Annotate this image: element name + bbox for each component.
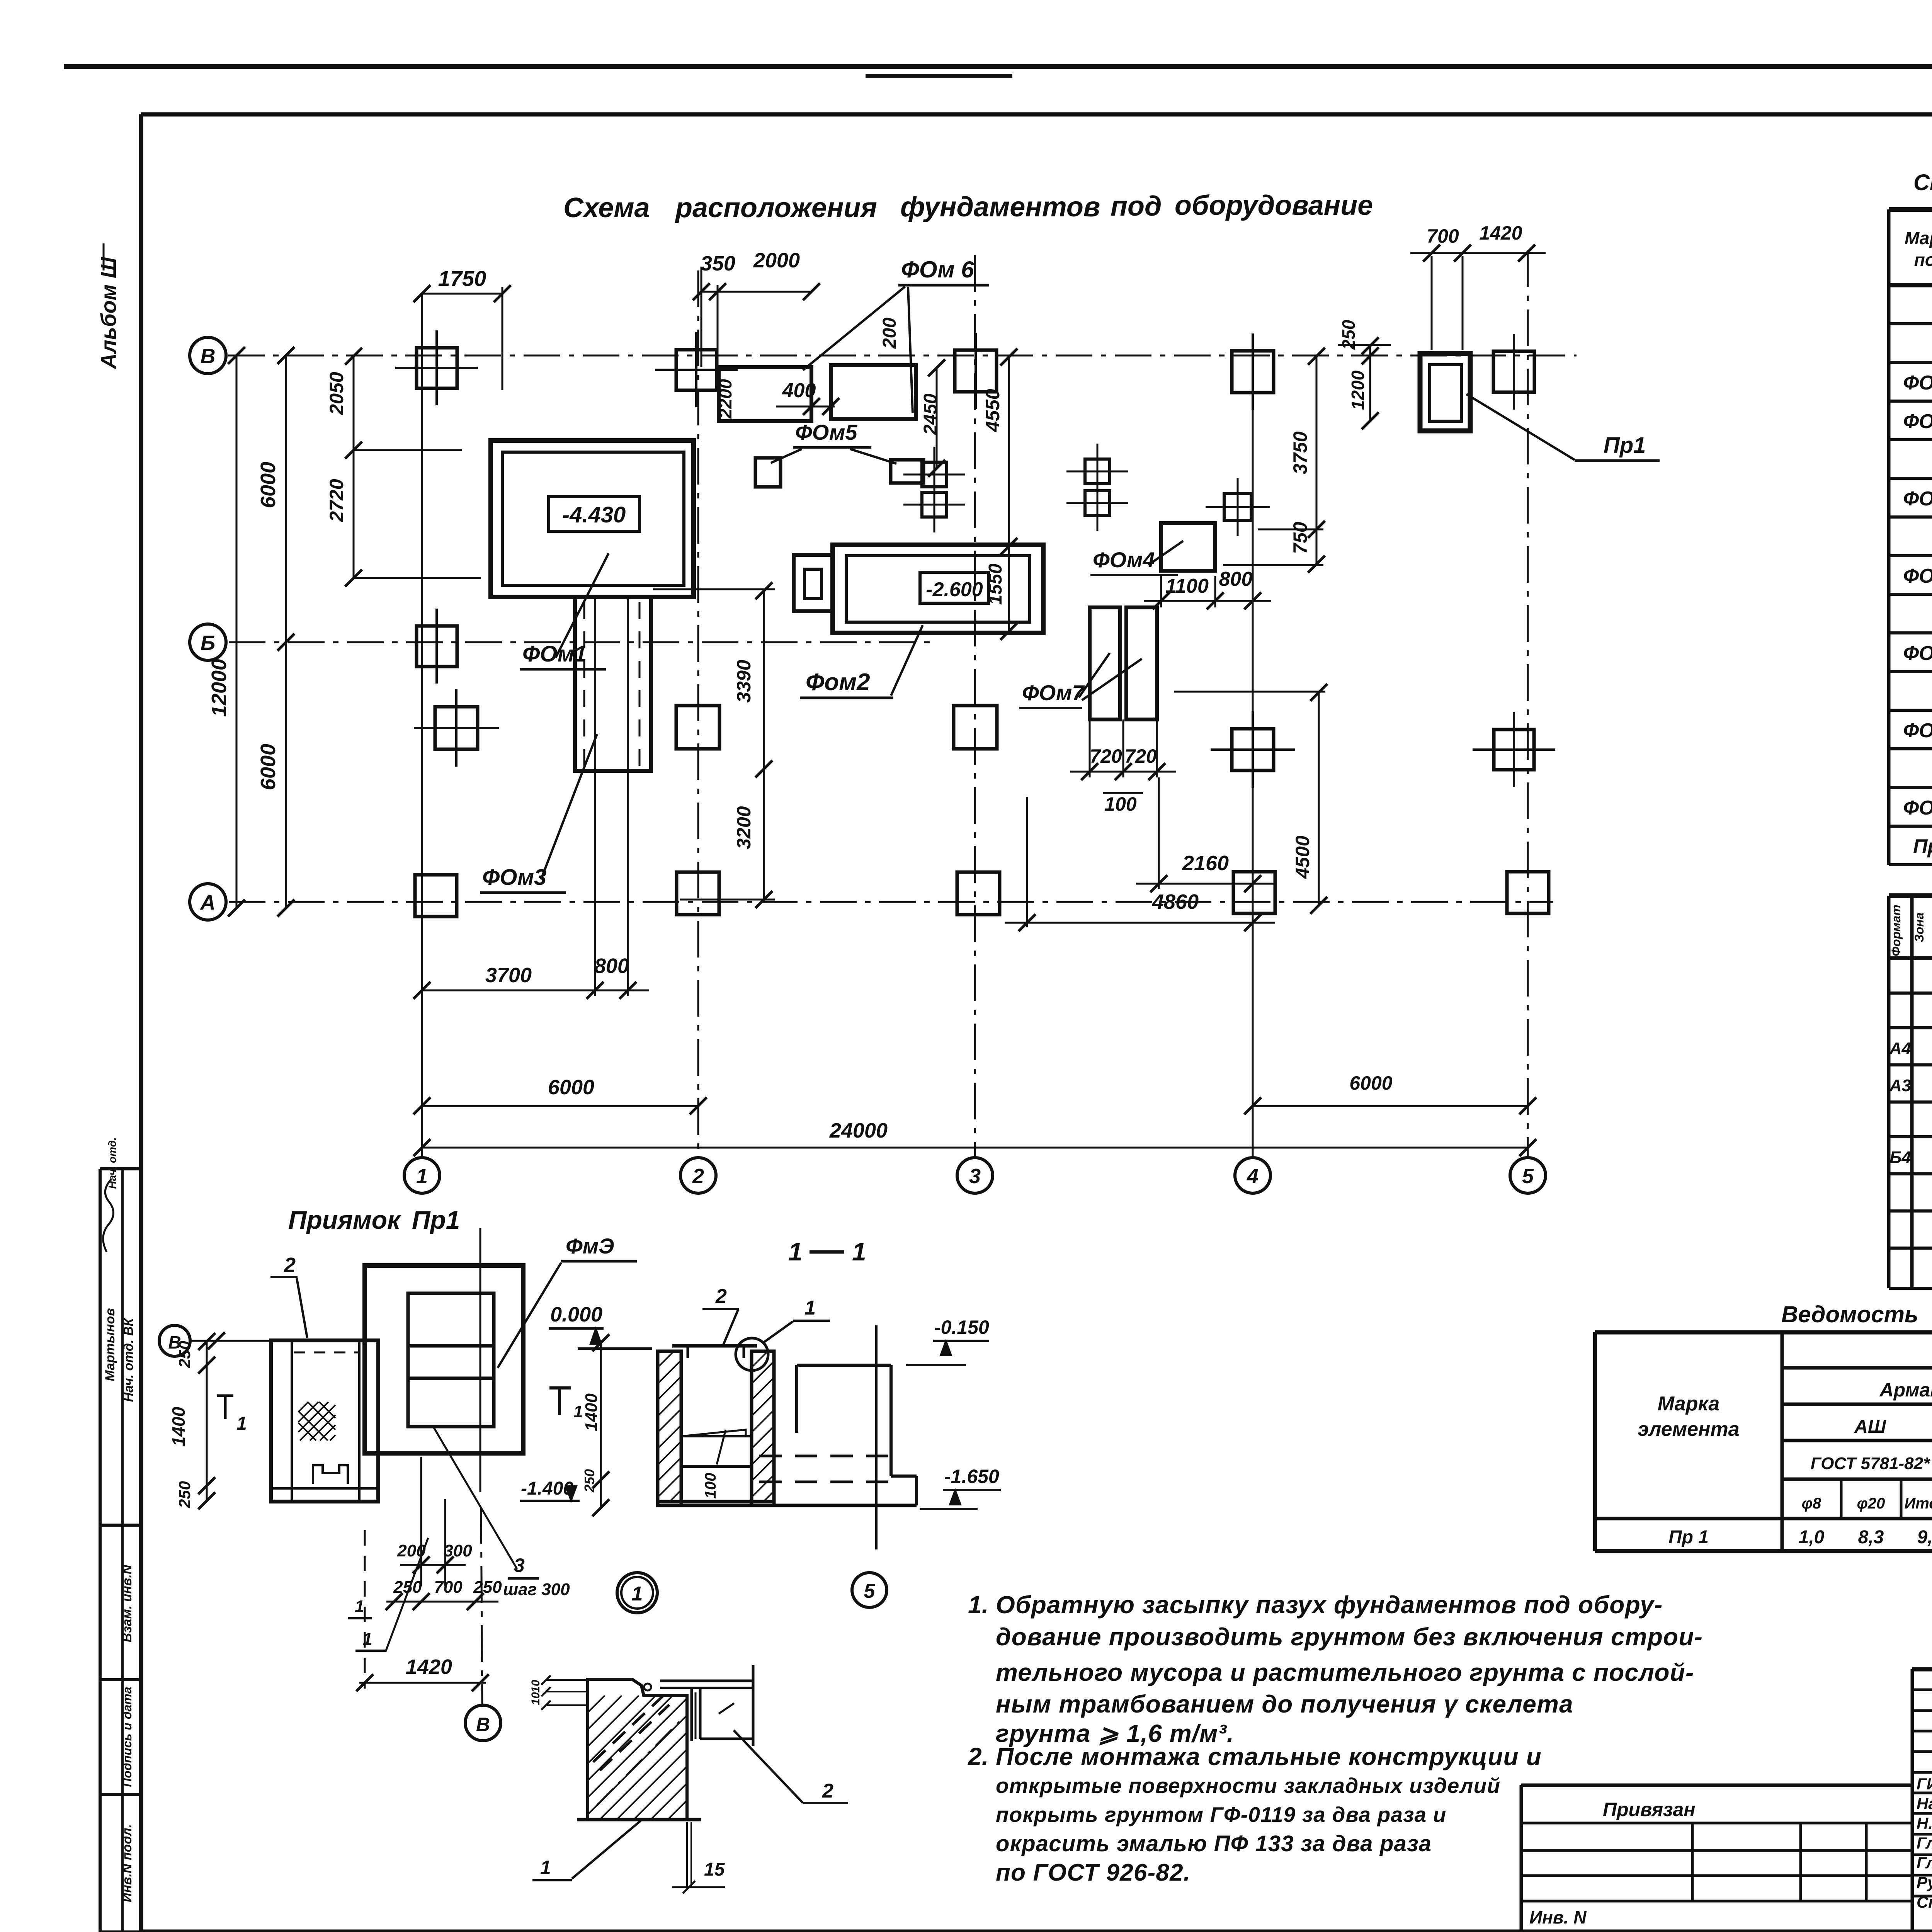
- svg-text:Взам. инв.N: Взам. инв.N: [120, 1564, 134, 1642]
- svg-text:1750: 1750: [438, 266, 486, 291]
- svg-text:3: 3: [969, 1165, 981, 1188]
- svg-text:1: 1: [788, 1237, 803, 1266]
- svg-text:250: 250: [582, 1469, 597, 1493]
- svg-text:3200: 3200: [733, 806, 755, 849]
- svg-text:ФОм4: ФОм4: [1093, 548, 1155, 572]
- svg-text:2: 2: [715, 1285, 727, 1308]
- svg-text:поз.: поз.: [1914, 250, 1932, 270]
- svg-text:2050: 2050: [326, 372, 347, 415]
- svg-text:ФОм5: ФОм5: [795, 420, 857, 444]
- svg-text:1: 1: [573, 1402, 583, 1421]
- svg-text:2000: 2000: [753, 249, 800, 272]
- svg-text:250: 250: [175, 1341, 194, 1368]
- svg-text:Гл. спец: Гл. спец: [1917, 1854, 1932, 1872]
- svg-text:расположения: расположения: [675, 192, 877, 223]
- svg-text:1: 1: [540, 1857, 551, 1878]
- svg-text:4860: 4860: [1152, 890, 1199, 913]
- svg-text:под: под: [1111, 191, 1162, 222]
- svg-text:ФОм3: ФОм3: [482, 865, 546, 890]
- svg-text:ГИП: ГИП: [1917, 1775, 1932, 1793]
- svg-text:Гл.конст: Гл.конст: [1917, 1834, 1932, 1852]
- svg-text:дование производить грунтом: дование производить грунтом без включени…: [996, 1623, 1703, 1651]
- svg-text:1550: 1550: [985, 563, 1006, 605]
- svg-text:АШ: АШ: [1854, 1417, 1886, 1437]
- svg-text:по ГОСТ 926-82.: по ГОСТ 926-82.: [996, 1859, 1190, 1886]
- svg-text:1: 1: [632, 1583, 643, 1605]
- svg-text:10: 10: [529, 1680, 542, 1693]
- svg-text:4: 4: [1247, 1165, 1259, 1188]
- svg-text:оборудование: оборудование: [1175, 190, 1373, 221]
- svg-text:Пр1: Пр1: [1913, 835, 1932, 858]
- svg-text:720: 720: [1124, 745, 1157, 767]
- svg-text:Н.контр.: Н.контр.: [1917, 1814, 1932, 1832]
- svg-text:ФОм1: ФОм1: [1903, 372, 1932, 394]
- svg-text:φ20: φ20: [1857, 1495, 1885, 1512]
- svg-text:Обратную засыпку пазух фунд: Обратную засыпку пазух фундаментов под о…: [996, 1591, 1663, 1619]
- svg-text:6000: 6000: [1349, 1072, 1392, 1094]
- svg-text:Подпись и дата: Подпись и дата: [120, 1687, 134, 1787]
- svg-text:1,0: 1,0: [1799, 1527, 1825, 1548]
- svg-text:800: 800: [1219, 568, 1253, 590]
- svg-text:Привязан: Привязан: [1603, 1799, 1696, 1820]
- svg-text:ФОм1: ФОм1: [522, 641, 587, 667]
- svg-text:1: 1: [362, 1629, 372, 1649]
- svg-text:100: 100: [1104, 793, 1137, 815]
- svg-text:10: 10: [529, 1692, 542, 1705]
- svg-text:-1.650: -1.650: [944, 1466, 999, 1487]
- svg-text:300: 300: [444, 1541, 472, 1560]
- svg-text:В: В: [201, 345, 216, 368]
- svg-text:2720: 2720: [326, 479, 347, 522]
- svg-text:ФОм6: ФОм6: [1903, 719, 1932, 742]
- svg-text:2160: 2160: [1182, 852, 1229, 875]
- svg-text:1: 1: [852, 1237, 866, 1266]
- svg-text:ФОм7: ФОм7: [1022, 680, 1085, 705]
- svg-text:ным трамбованием до получен: ным трамбованием до получения γ скелета: [996, 1690, 1573, 1718]
- svg-text:открытые поверхности закладных: открытые поверхности закладных изделий: [996, 1774, 1500, 1798]
- svg-text:3700: 3700: [485, 964, 532, 987]
- svg-text:А4: А4: [1889, 1039, 1911, 1058]
- svg-text:Приямок: Приямок: [288, 1206, 401, 1234]
- svg-text:250: 250: [175, 1481, 194, 1509]
- svg-text:Схема: Схема: [563, 192, 650, 223]
- svg-text:800: 800: [594, 954, 629, 978]
- svg-text:окрасить эмалью ПФ 133 за два: окрасить эмалью ПФ 133 за два раза: [996, 1831, 1432, 1856]
- svg-text:Б4: Б4: [1889, 1148, 1911, 1167]
- svg-text:ФОм4: ФОм4: [1903, 565, 1932, 587]
- svg-text:1400: 1400: [168, 1406, 189, 1446]
- svg-text:ФмЭ: ФмЭ: [566, 1234, 614, 1258]
- svg-text:ФОм7: ФОм7: [1903, 797, 1932, 819]
- svg-text:6000: 6000: [257, 462, 280, 508]
- svg-text:ФОм5: ФОм5: [1903, 642, 1932, 665]
- svg-text:1420: 1420: [1479, 222, 1522, 244]
- svg-text:1: 1: [804, 1297, 816, 1319]
- svg-text:-0.150: -0.150: [934, 1316, 989, 1338]
- svg-text:400: 400: [782, 379, 816, 402]
- svg-text:2450: 2450: [920, 393, 941, 435]
- svg-text:-1.400: -1.400: [521, 1478, 573, 1499]
- svg-text:200: 200: [879, 318, 900, 349]
- svg-text:Мартынов: Мартынов: [103, 1308, 117, 1381]
- svg-text:Инв. N: Инв. N: [1529, 1907, 1587, 1927]
- svg-text:Нач. отд. ВК: Нач. отд. ВК: [121, 1318, 136, 1402]
- svg-text:1: 1: [236, 1413, 247, 1434]
- svg-text:Ст. инж: Ст. инж: [1917, 1893, 1932, 1911]
- svg-text:шаг 300: шаг 300: [503, 1580, 570, 1599]
- svg-text:Ведомость: Ведомость: [1781, 1301, 1918, 1327]
- svg-text:6000: 6000: [257, 744, 280, 790]
- svg-text:Пр1: Пр1: [412, 1206, 460, 1234]
- svg-text:15: 15: [704, 1859, 725, 1880]
- svg-text:1100: 1100: [1165, 575, 1209, 597]
- svg-text:ГОСТ 5781-82*: ГОСТ 5781-82*: [1811, 1454, 1930, 1473]
- svg-text:элемента: элемента: [1638, 1418, 1739, 1440]
- svg-text:ФОм2: ФОм2: [1903, 410, 1932, 433]
- svg-text:8,3: 8,3: [1858, 1527, 1884, 1548]
- svg-text:-2.600: -2.600: [926, 578, 983, 601]
- svg-text:Инв.N подл.: Инв.N подл.: [120, 1824, 134, 1902]
- svg-text:Фом2: Фом2: [806, 669, 870, 696]
- svg-text:Зона: Зона: [1912, 912, 1926, 942]
- svg-text:тельного мусора и раститель: тельного мусора и растительного грунта с…: [996, 1658, 1694, 1686]
- svg-text:2: 2: [822, 1780, 833, 1802]
- svg-text:Марка: Марка: [1905, 228, 1932, 248]
- svg-text:покрыть грунтом ГФ-0119 за два: покрыть грунтом ГФ-0119 за два раза и: [996, 1803, 1447, 1827]
- svg-text:Марка: Марка: [1658, 1393, 1720, 1415]
- svg-text:Формат: Формат: [1889, 905, 1903, 956]
- svg-text:3390: 3390: [733, 660, 755, 702]
- svg-text:Рук. гр.: Рук. гр.: [1917, 1873, 1932, 1891]
- svg-text:9,3: 9,3: [1917, 1527, 1932, 1548]
- svg-text:Итого: Итого: [1904, 1495, 1932, 1512]
- svg-text:После монтажа стальные констру: После монтажа стальные конструкции и: [996, 1743, 1542, 1770]
- svg-text:1: 1: [416, 1165, 428, 1188]
- svg-text:φ8: φ8: [1802, 1495, 1821, 1512]
- svg-text:Б: Б: [201, 631, 215, 655]
- svg-text:1: 1: [355, 1597, 364, 1616]
- svg-text:ФОм 6: ФОм 6: [901, 257, 974, 282]
- svg-text:1400: 1400: [582, 1393, 601, 1431]
- svg-text:250: 250: [473, 1578, 502, 1597]
- svg-text:24000: 24000: [829, 1119, 888, 1142]
- svg-text:3750: 3750: [1289, 431, 1311, 474]
- svg-text:4500: 4500: [1292, 835, 1313, 879]
- svg-text:0.000: 0.000: [550, 1303, 602, 1326]
- svg-text:-4.430: -4.430: [562, 502, 626, 527]
- svg-text:Спецификация: Спецификация: [1913, 170, 1932, 195]
- svg-text:12000: 12000: [207, 659, 231, 717]
- svg-text:2.: 2.: [968, 1743, 988, 1770]
- svg-text:Альбом Ш: Альбом Ш: [96, 257, 121, 369]
- svg-text:1200: 1200: [1348, 370, 1368, 410]
- svg-text:700: 700: [434, 1578, 463, 1597]
- svg-text:2: 2: [284, 1253, 296, 1277]
- svg-text:2200: 2200: [715, 379, 735, 419]
- svg-text:5: 5: [1522, 1165, 1534, 1188]
- svg-text:6000: 6000: [548, 1076, 594, 1099]
- svg-text:750: 750: [1289, 522, 1311, 554]
- svg-text:А3: А3: [1889, 1076, 1911, 1095]
- svg-text:1.: 1.: [968, 1591, 988, 1619]
- svg-text:5: 5: [864, 1580, 876, 1602]
- svg-text:ФОм3: ФОм3: [1903, 488, 1932, 510]
- svg-text:700: 700: [1427, 225, 1459, 247]
- svg-text:В: В: [476, 1714, 490, 1735]
- svg-text:350: 350: [701, 252, 735, 275]
- svg-text:4550: 4550: [982, 389, 1003, 432]
- svg-text:А: А: [200, 891, 216, 914]
- svg-text:1420: 1420: [406, 1655, 452, 1679]
- svg-text:720: 720: [1090, 745, 1122, 767]
- svg-text:Арматура класса: Арматура класса: [1879, 1379, 1932, 1401]
- svg-text:100: 100: [702, 1473, 719, 1499]
- svg-text:Нач. отд.: Нач. отд.: [1917, 1794, 1932, 1813]
- svg-text:фундаментов: фундаментов: [900, 192, 1100, 223]
- svg-text:Пр1: Пр1: [1604, 433, 1646, 458]
- svg-text:Пр 1: Пр 1: [1668, 1527, 1709, 1548]
- svg-text:2: 2: [692, 1165, 704, 1188]
- svg-text:Нач. отд.: Нач. отд.: [106, 1137, 118, 1189]
